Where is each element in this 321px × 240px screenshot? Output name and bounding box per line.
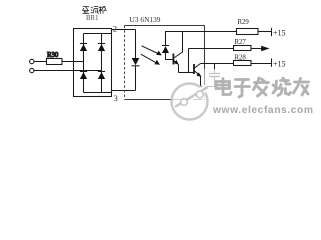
- bridge BR1 left column: [83, 34, 85, 93]
- wire ground run: [201, 86, 215, 88]
- label 整流桥: [82, 6, 106, 13]
- svg-text:R27: R27: [235, 39, 247, 46]
- svg-text:+15: +15: [273, 29, 286, 38]
- terminal J1: [30, 59, 34, 63]
- wire Q1 emitter to Q2 base: [179, 72, 194, 74]
- optocoupler U3 box left edge: [124, 26, 126, 100]
- optocoupler U3 box right edge: [204, 26, 206, 100]
- LED cathode wire: [135, 66, 137, 91]
- diode D1 (upper, col x=83.5): [80, 44, 87, 52]
- photodiode of U3: [162, 46, 169, 54]
- watermark logo: [172, 84, 208, 120]
- svg-text:U3 6N139: U3 6N139: [130, 15, 161, 24]
- wire bridge+ to pin2: [112, 30, 136, 34]
- diode D3 (upper, col x=101.5): [98, 44, 105, 52]
- capacitor C upper lead: [214, 64, 216, 74]
- svg-text:BR1: BR1: [86, 15, 98, 22]
- wire J2 to bridge: [34, 70, 102, 72]
- bridge BR1 mid column: [101, 34, 103, 93]
- svg-text:R30: R30: [47, 52, 59, 59]
- LED anode wire: [135, 30, 137, 59]
- resistor R28: [234, 61, 252, 66]
- output arrow: [261, 46, 269, 52]
- wire collector to R28: [201, 63, 234, 65]
- Vcc rail pin8: [166, 32, 237, 46]
- diode D2 (lower, col x=83.5): [80, 72, 87, 80]
- bridge BR1 top rail: [84, 33, 112, 35]
- svg-text:2: 2: [113, 23, 117, 33]
- watermark text 电子发烧友: [216, 78, 309, 98]
- wire R27 to arrow: [251, 48, 262, 50]
- power tick upper: [271, 28, 273, 36]
- transistor Q2: [194, 64, 202, 87]
- transistor Q1: [173, 32, 182, 73]
- bridge BR1 bottom rail: [84, 92, 112, 94]
- resistor R30: [47, 59, 63, 65]
- capacitor C lower lead: [214, 77, 216, 87]
- svg-text:3: 3: [114, 93, 118, 103]
- svg-text:R28: R28: [235, 54, 247, 61]
- wire pin3 run: [112, 91, 136, 93]
- svg-text:R29: R29: [238, 19, 250, 26]
- wire R28 to +15: [251, 63, 272, 65]
- wire R29 to +15: [258, 31, 272, 33]
- photodiode to Q1 base: [166, 53, 173, 60]
- wire R30 to bridge: [62, 61, 84, 63]
- wire J1 to R30: [34, 61, 47, 63]
- svg-text:www.elecfans.com: www.elecfans.com: [212, 105, 314, 116]
- optocoupler U3 box top edge: [125, 25, 205, 27]
- terminal J2: [30, 68, 34, 72]
- bridge BR1 outer box: [74, 29, 112, 97]
- resistor R29: [237, 29, 259, 35]
- power tick lower: [271, 59, 273, 67]
- pin7 riser wire: [188, 49, 190, 73]
- resistor R27: [234, 46, 252, 51]
- LED of U3: [132, 58, 140, 66]
- wire pin7 to R27: [189, 48, 234, 50]
- capacitor C plates: [209, 74, 220, 77]
- optocoupler U3 box bottom edge: [125, 99, 205, 101]
- svg-text:+15: +15: [273, 60, 286, 69]
- diode D4 (lower, col x=101.5): [98, 72, 105, 80]
- light arrow 2: [141, 54, 160, 65]
- light arrow 1: [142, 46, 162, 56]
- watermark dim layer: [202, 69, 321, 119]
